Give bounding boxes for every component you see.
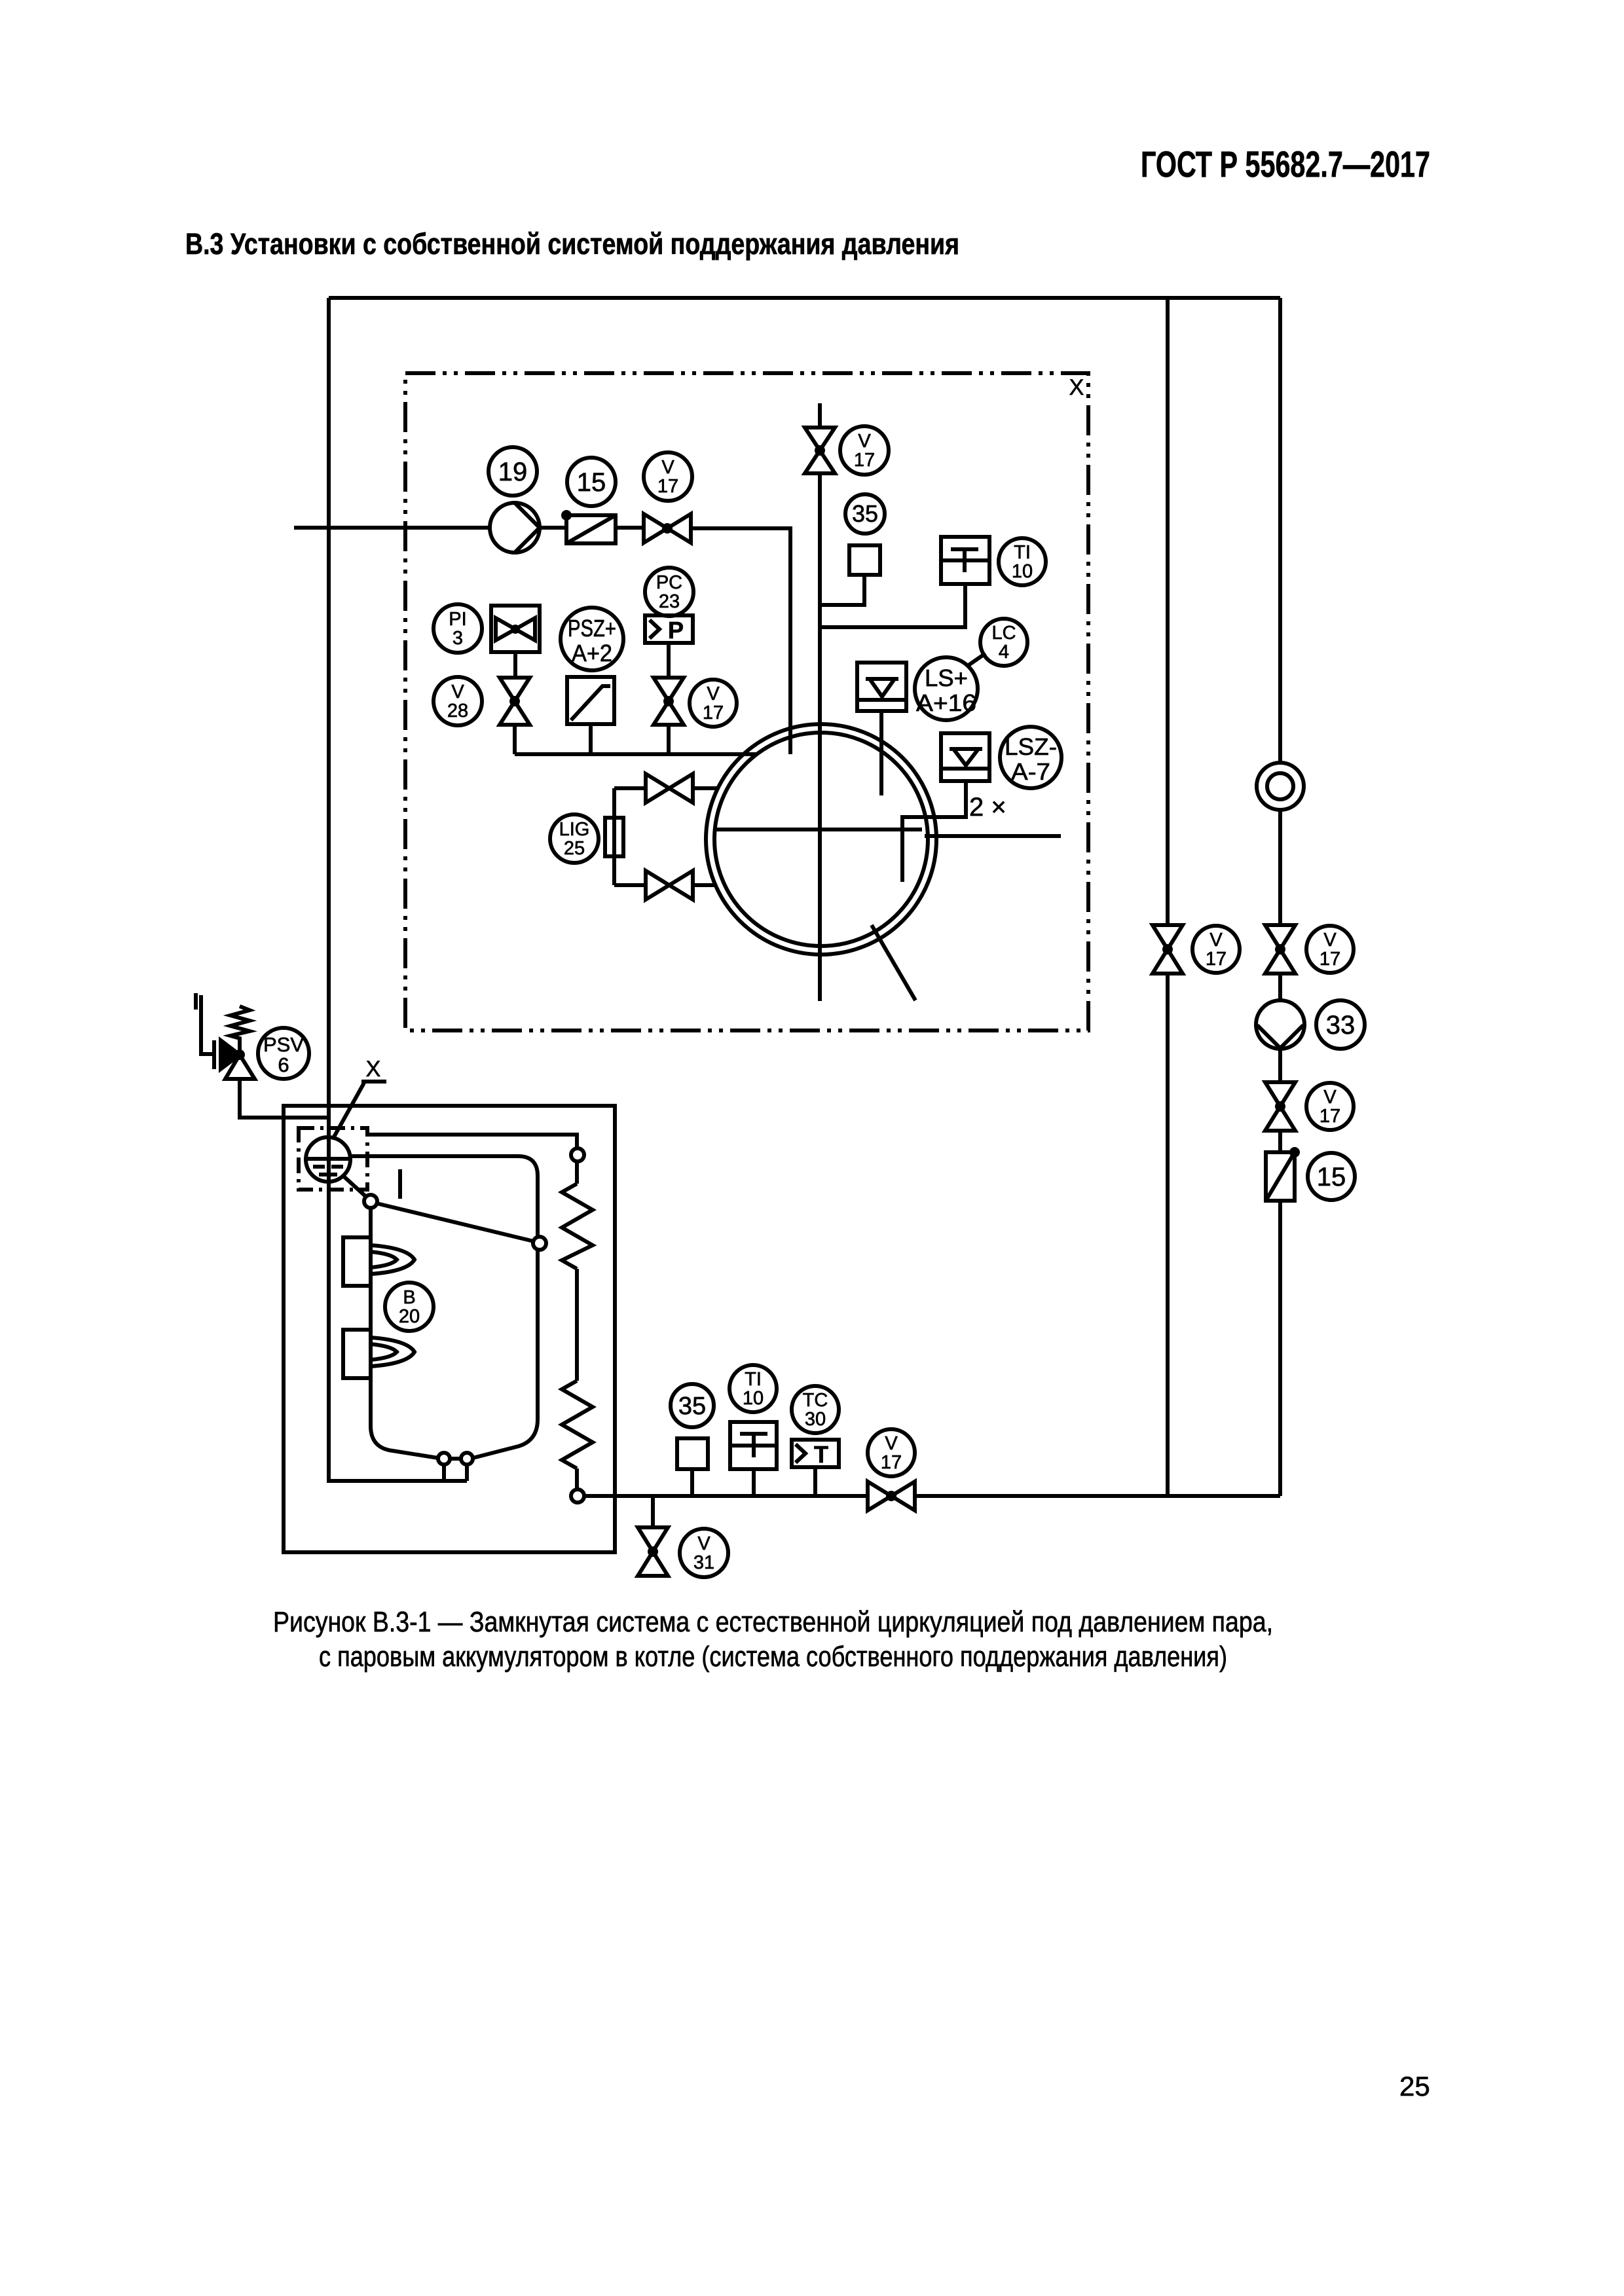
wire: steam outlet line [925,834,1061,838]
wire: circulation pipe seg4 [1278,1049,1282,1082]
wire: LS to LC link [969,653,986,665]
svg-text:10: 10 [743,1388,764,1409]
svg-text:33: 33 [1326,1011,1356,1040]
safety valve PSV [214,1006,255,1079]
instrument circle V17 (return pipe) [1192,926,1240,973]
instrument circle V17 (circulation upper) [1306,926,1354,973]
instrument circle LS+ A+16 [915,657,978,720]
valve (gauge upper) [646,774,693,803]
valve (below control valve) [500,678,530,725]
expansion vessel dash-dot box [299,1128,367,1190]
valve (gauge lower) [646,871,693,900]
svg-text:6: 6 [278,1053,289,1076]
wire: feedwater to downcomer [691,528,790,754]
instrument circle TI 10 (bottom) [729,1365,777,1412]
wire: vessel steam line to heater [367,1135,577,1148]
instrument circle TC 30 [792,1386,839,1433]
wire: filter to valve [616,526,644,530]
instrument circle V17 (circulation lower) [1306,1083,1354,1130]
svg-text:TI: TI [745,1369,762,1390]
wire: heater drop 2 [575,1269,579,1381]
wire: PSV vent barb [194,993,198,1010]
wire: PSV outlet to feed line [240,1079,329,1118]
svg-text:PI: PI [449,609,466,630]
wire: return pipe (x=1783) lower [1166,974,1170,1496]
instrument circle LIG 25 [550,814,599,863]
valve V17 (bottom pipe) [868,1482,915,1510]
temperature transmitter T box [792,1440,839,1468]
pump 19 [490,503,540,553]
svg-text:17: 17 [1319,949,1340,970]
svg-text:V: V [697,1533,710,1554]
svg-text:V: V [707,683,720,704]
label circle 35 (steam) [845,494,885,534]
svg-text:LS+: LS+ [925,665,968,691]
svg-text:LIG: LIG [559,819,590,840]
wire: manifold to drum [515,752,756,756]
instrument circle V 31 [680,1529,728,1577]
wire: circulation pipe seg2 [1278,810,1282,925]
wire: vessel to level node [343,1176,365,1196]
wire: gauge upper links [614,786,718,790]
sensor 35 square (steam) [849,545,880,575]
flow sight glass (double circle) [1257,763,1304,810]
svg-text:T: T [814,1441,828,1468]
svg-text:4: 4 [999,642,1009,663]
svg-text:PSV: PSV [263,1033,304,1056]
sight glass LIG [605,818,623,856]
instrument circle LC 4 [980,619,1027,666]
svg-text:V: V [858,431,871,452]
instrument circle B 20 [385,1283,434,1331]
svg-text:35: 35 [852,500,878,527]
svg-text:20: 20 [399,1306,420,1327]
svg-text:PSZ+: PSZ+ [568,615,616,642]
valve V17 (circulation upper) [1265,925,1295,974]
svg-text:P: P [668,617,684,644]
svg-text:25: 25 [564,838,585,859]
svg-text:17: 17 [1319,1106,1340,1127]
svg-text:PC: PC [656,572,682,593]
svg-text:ГОСТ Р 55682.7—2017: ГОСТ Р 55682.7—2017 [1141,143,1430,185]
wire: gradient box stem [589,724,593,754]
node: drain nozzle left [438,1453,450,1465]
sensor 35 square (bottom) [677,1438,708,1469]
label circle 15 (circulation) [1308,1153,1355,1200]
wire: drum blowdown diagonal [872,925,915,1000]
wire: feed line left edge down to return header [329,298,467,1481]
svg-text:X: X [1069,375,1084,400]
svg-text:17: 17 [657,476,678,497]
level sensor LS box [857,663,906,711]
valve V17 (vent) [805,428,835,473]
wire: T box tail [813,1467,817,1496]
svg-text:TC: TC [803,1390,828,1411]
boiler casing box [284,1106,615,1552]
svg-text:A+16: A+16 [916,689,976,716]
wire: feedwater stub [294,526,490,530]
pump 33 [1256,1000,1304,1049]
svg-text:25: 25 [1399,2071,1430,2102]
svg-text:B: B [403,1287,415,1308]
svg-text:30: 30 [805,1409,826,1430]
instrument circle V17 (bottom pipe) [868,1429,915,1476]
heating element zigzag 2 [562,1381,593,1468]
wire: nozzle stems [444,1465,467,1481]
instrument circle TI 10 (steam) [999,538,1046,585]
svg-text:В.3 Установки с собственной си: В.3 Установки с собственной системой под… [185,227,959,261]
wire: drum water level line [715,828,922,831]
wire: valve stem a [513,725,517,754]
node: drain nozzle right [461,1453,473,1465]
instrument circle PC 23 [645,568,693,616]
svg-text:X: X [366,1057,381,1082]
svg-text:15: 15 [1317,1163,1346,1192]
wire: circulation pipe seg6 [1278,1201,1282,1496]
pressure transmitter P box [645,615,693,644]
wire: sensor 35 tail [820,575,864,605]
filter 15 (circulation pipe) [1266,1147,1300,1201]
valve V17 (feedwater) [644,514,691,543]
wire: circulation pipe (x=1955) seg1 [1278,298,1282,763]
wire: pump to filter [540,526,566,530]
level sensor LSZ box [941,733,989,781]
svg-text:LC: LC [991,623,1016,644]
wire: circulation pipe seg5 [1278,1131,1282,1152]
node: water level left [364,1195,377,1208]
wire: system top edge [329,296,1280,300]
gradient controller box [567,677,614,724]
svg-text:3: 3 [452,628,463,649]
wire: bottom pipe right [915,1494,1280,1498]
wire: LSZ probe bracket [902,781,966,882]
svg-text:A+2: A+2 [572,640,612,666]
wire: TI bottom tail [752,1469,756,1496]
svg-text:V: V [885,1433,898,1454]
wire: heater drop 1 [575,1161,579,1184]
svg-text:10: 10 [1012,561,1033,582]
svg-text:17: 17 [1206,949,1227,970]
instrument circle LSZ- A-7 [1000,727,1061,788]
wire: heater drop 3 [575,1468,579,1489]
wire: PSV vent line [201,995,214,1054]
filter 15 (feedwater) [561,510,616,543]
svg-text:Рисунок В.3-1 — Замкнутая сист: Рисунок В.3-1 — Замкнутая система с есте… [273,1606,1273,1638]
wire: vent stub [818,403,822,428]
thermometer TI box (bottom) [730,1422,777,1469]
wire: TI tail [820,584,965,627]
svg-text:LSZ-: LSZ- [1005,733,1057,760]
svg-text:V: V [1323,930,1337,951]
svg-text:V: V [451,682,464,702]
wire: LS probe into drum [879,711,883,795]
label circle 35 (bottom) [671,1384,714,1427]
svg-text:15: 15 [577,468,606,497]
label circle 15 (feedwater) [567,458,616,506]
wire: gauge lower links [614,883,716,887]
burner 2 [343,1330,415,1378]
wire: sensor 35 bottom tail [690,1469,694,1496]
node: heater bottom junction [571,1489,584,1503]
valve (below P box) [654,678,684,725]
svg-text:V: V [1323,1087,1337,1108]
wire: valve stem b [667,725,671,754]
heating element zigzag 1 [562,1184,593,1269]
wire: circulation pipe seg3 [1278,974,1282,1000]
expansion vessel circle [306,1137,350,1182]
svg-text:TI: TI [1014,542,1031,563]
label circle 19 [489,447,537,496]
wire: drain stub [651,1496,655,1527]
instrument circle PSZ+ A+2 [561,608,623,670]
wire: steam riser [818,473,822,1001]
instrument circle PSV 6 [258,1028,309,1079]
svg-text:V: V [1209,930,1223,951]
instrument circle V17 (feedwater) [644,452,692,501]
label X (expansion vessel callout) [333,1057,386,1139]
svg-text:A-7: A-7 [1011,758,1050,785]
node: water level right [533,1237,546,1250]
svg-text:с паровым аккумулятором в котл: с паровым аккумулятором в котле (система… [319,1641,1227,1673]
svg-text:17: 17 [881,1452,902,1473]
instrument circle V 28 [434,677,482,725]
thermometer TI box (steam) [941,537,989,584]
svg-text:35: 35 [678,1393,706,1420]
svg-text:31: 31 [693,1552,714,1573]
wire: level gauge column [612,788,616,885]
wire: control valve stem [513,652,517,677]
boundary box X (dash-dot) [405,373,1088,1030]
svg-text:17: 17 [703,702,724,723]
svg-text:V: V [661,457,674,478]
instrument circle V17 (row3) [690,680,737,727]
svg-text:17: 17 [854,450,875,471]
instrument circle V17 (vent) [840,426,889,475]
svg-text:2 ×: 2 × [969,793,1006,822]
wire: P box stem [667,643,671,677]
svg-text:19: 19 [498,458,528,486]
valve V31 (drain) [638,1527,668,1576]
label circle 33 [1316,1000,1365,1049]
wire: return pipe (x=1783) upper [1166,298,1170,925]
wire: water level diagonal [377,1203,534,1241]
control valve box [491,606,540,652]
valve V17 (circulation lower) [1265,1082,1295,1131]
instrument circle PI 3 [434,604,482,653]
svg-text:23: 23 [659,591,680,612]
steam drum (double circle) [706,724,936,955]
burner 1 [343,1237,415,1286]
valve V17 (return pipe) [1153,925,1183,974]
wire: bottom pipe left [584,1494,868,1498]
boiler vessel outline [350,1156,538,1459]
svg-text:28: 28 [447,701,468,721]
node: heater top [571,1148,584,1161]
mark I [398,1169,402,1199]
